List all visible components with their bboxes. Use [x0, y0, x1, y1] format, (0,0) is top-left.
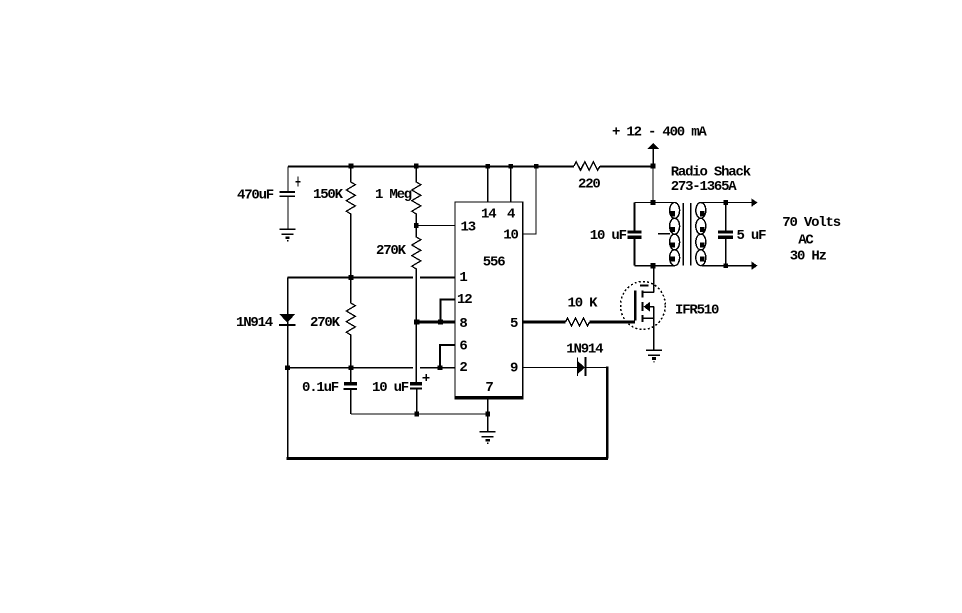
capacitor 5uF plates: [718, 230, 733, 233]
svg-text:10 uF: 10 uF: [590, 228, 627, 244]
T1 core lines: [683, 203, 690, 266]
Q1 body arrow: [649, 306, 654, 308]
svg-text:470uF: 470uF: [237, 188, 274, 204]
junction dot 1Meg/270K/pin13: [414, 223, 419, 228]
capacitor 10uF plates: [410, 382, 422, 386]
T1 primary tap line: [658, 233, 670, 235]
diode D2 1N914 anode line: [577, 358, 579, 376]
wire 10K to gate: [590, 321, 636, 324]
junction dot secondary bottom: [723, 263, 728, 268]
resistor R 270K upper: [412, 225, 421, 382]
svg-text:270K: 270K: [376, 243, 407, 259]
svg-text:+ 12 - 400 mA: + 12 - 400 mA: [612, 125, 707, 141]
wire pin13: [416, 224, 455, 226]
svg-text:1N914: 1N914: [236, 315, 273, 331]
svg-text:IFR510: IFR510: [675, 302, 719, 318]
ground under Q1: [646, 350, 662, 363]
resistor R 150K: [346, 166, 355, 278]
Q1 source connection: [644, 317, 654, 319]
wire pin10 drop: [523, 166, 536, 234]
svg-text:7: 7: [485, 380, 493, 396]
svg-text:70 Volts: 70 Volts: [782, 215, 840, 231]
junction dot pin7: [485, 412, 490, 417]
Q1 top dash: [640, 284, 648, 286]
wire bottom of loop: [286, 457, 608, 460]
svg-text:9: 9: [510, 361, 518, 377]
svg-text:2: 2: [459, 360, 467, 376]
diode D2 cathode bar: [585, 357, 587, 376]
wire pin12 bracket: [441, 300, 456, 322]
capacitor C1 plus sign: [295, 176, 300, 186]
diode D1 1N914 triangle: [279, 314, 296, 323]
capacitor 10uF xfmr stem top: [634, 203, 636, 231]
svg-text:556: 556: [483, 255, 505, 271]
wire pin4 drop: [510, 166, 512, 202]
capacitor 5uF stem bottom: [725, 239, 727, 266]
junction dot pin2/diode stem: [285, 365, 290, 370]
junction dot rail/1Meg: [414, 164, 419, 169]
wire caps bottom: [351, 413, 488, 415]
capacitor C1 470uF stem top: [287, 167, 289, 192]
svg-text:0.1uF: 0.1uF: [302, 380, 339, 396]
wire secondary top: [701, 202, 751, 204]
resistor R 270K lower: [346, 278, 355, 368]
capacitor 10uF xfmr stem bottom: [634, 239, 636, 266]
capacitor 0.1uF stem top: [350, 368, 352, 382]
capacitor 0.1uF stem bottom: [350, 390, 352, 414]
svg-text:4: 4: [507, 207, 515, 223]
svg-text:Radio Shack: Radio Shack: [671, 164, 751, 180]
op-amp U1 556 IC box: [455, 202, 523, 399]
wire secondary bottom: [701, 265, 751, 267]
Q1 channel segments: [642, 290, 644, 322]
output arrow top: [752, 198, 758, 206]
Q1 gate bar: [634, 290, 636, 320]
capacitor 10uF xfmr plates: [628, 230, 642, 233]
svg-text:150K: 150K: [313, 187, 344, 203]
svg-text:8: 8: [459, 316, 467, 332]
junction dot pin8/270K: [414, 319, 419, 324]
T1 secondary coil squares: [700, 211, 705, 261]
junction dot rail/150K: [349, 164, 354, 169]
svg-text:12: 12: [457, 292, 472, 308]
svg-text:14: 14: [481, 207, 496, 223]
junction dot secondary top: [723, 200, 728, 205]
wire pin1: [288, 277, 413, 279]
transformer T1 secondary coil: [696, 203, 706, 266]
svg-text:273-1365A: 273-1365A: [671, 179, 738, 195]
svg-text:1N914: 1N914: [566, 342, 603, 358]
capacitor 10uF plus sign: [423, 374, 430, 381]
transformer T1 primary coil: [670, 203, 680, 266]
output arrow bottom: [752, 262, 758, 270]
svg-text:220: 220: [578, 177, 600, 193]
junction dot pin8/pin12: [438, 320, 443, 325]
resistor R 1Meg: [412, 166, 421, 225]
capacitor 5uF stem top: [725, 203, 727, 231]
svg-text:1: 1: [459, 270, 467, 286]
wire pin8: [417, 321, 455, 324]
diode D2 triangle: [578, 361, 586, 374]
svg-text:10 uF: 10 uF: [372, 380, 409, 396]
junction dot 10uF bottom: [414, 412, 419, 417]
junction dot pin2/pin6: [438, 365, 443, 370]
junction square primary bottom: [650, 263, 655, 268]
wire primary bottom: [635, 265, 675, 267]
svg-text:5: 5: [510, 316, 518, 332]
svg-text:10: 10: [503, 228, 518, 244]
wire diode to corner: [587, 367, 607, 369]
capacitor 0.1uF plates: [344, 382, 357, 386]
wire pin7 drop: [487, 399, 489, 432]
junction dot pin1/150K-270K: [349, 275, 354, 280]
junction square primary top: [650, 200, 655, 205]
wire pin6 bracket: [440, 345, 455, 368]
junction dot pin2/270K: [349, 365, 354, 370]
supply arrow +12V: [652, 148, 654, 166]
junction dot rail/pin10: [534, 164, 538, 168]
diode D1 cathode bar: [279, 324, 296, 326]
wire pin9 out: [523, 367, 578, 369]
wire pin5 out: [523, 321, 566, 324]
junction dot rail/pin14: [486, 164, 490, 168]
svg-text:270K: 270K: [310, 315, 341, 331]
svg-text:10 K: 10 K: [568, 296, 599, 312]
ground under pin7: [480, 431, 496, 444]
junction dot rail/pin4: [509, 164, 513, 168]
wire pin2: [288, 367, 414, 369]
resistor R 10K: [566, 318, 590, 326]
wire V+ rail right of 220: [600, 166, 653, 168]
wire pin14 drop: [487, 166, 489, 202]
svg-text:1 Meg: 1 Meg: [375, 187, 412, 203]
svg-text:AC: AC: [798, 233, 814, 249]
capacitor C1 470uF plates: [279, 191, 295, 193]
svg-text:13: 13: [461, 220, 476, 236]
resistor R220: [574, 162, 600, 170]
transistor Q1 IFR510 circle: [621, 282, 666, 330]
IC bottom thick edge: [454, 396, 523, 399]
diode D1 1N914 stem: [287, 278, 289, 459]
junction square rail/220: [650, 163, 655, 168]
ground under C1: [280, 229, 296, 242]
capacitor 10uF stem bottom: [416, 390, 418, 414]
wire primary top: [635, 202, 675, 204]
wire rail to transformer: [652, 166, 654, 203]
capacitor C1 stem bottom: [287, 197, 289, 229]
svg-text:6: 6: [459, 339, 467, 355]
wire right vertical of loop: [606, 366, 609, 458]
svg-text:5 uF: 5 uF: [737, 228, 767, 244]
svg-text:30 Hz: 30 Hz: [790, 249, 827, 265]
T1 primary coil squares: [671, 211, 676, 261]
Q1 drain connection: [644, 291, 654, 293]
wire V+ top rail: [288, 166, 574, 168]
